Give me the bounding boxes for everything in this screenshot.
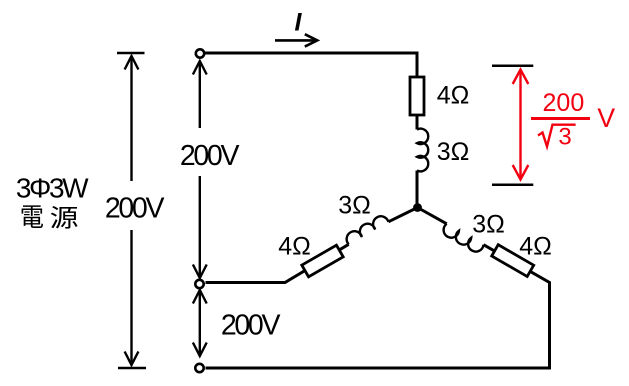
svg-text:V: V	[597, 103, 615, 133]
svg-text:3Ω: 3Ω	[338, 192, 371, 220]
svg-text:3Ω: 3Ω	[472, 211, 505, 239]
svg-text:3Φ3W: 3Φ3W	[16, 173, 89, 204]
svg-text:200V: 200V	[105, 193, 165, 225]
svg-text:200V: 200V	[221, 309, 281, 341]
svg-text:200V: 200V	[180, 140, 240, 172]
svg-text:I: I	[295, 9, 303, 37]
svg-text:3Ω: 3Ω	[437, 138, 470, 166]
svg-text:200: 200	[543, 89, 585, 117]
svg-text:4Ω: 4Ω	[437, 82, 470, 110]
svg-text:4Ω: 4Ω	[278, 233, 311, 261]
svg-text:4Ω: 4Ω	[519, 233, 552, 261]
svg-text:3: 3	[558, 123, 571, 150]
